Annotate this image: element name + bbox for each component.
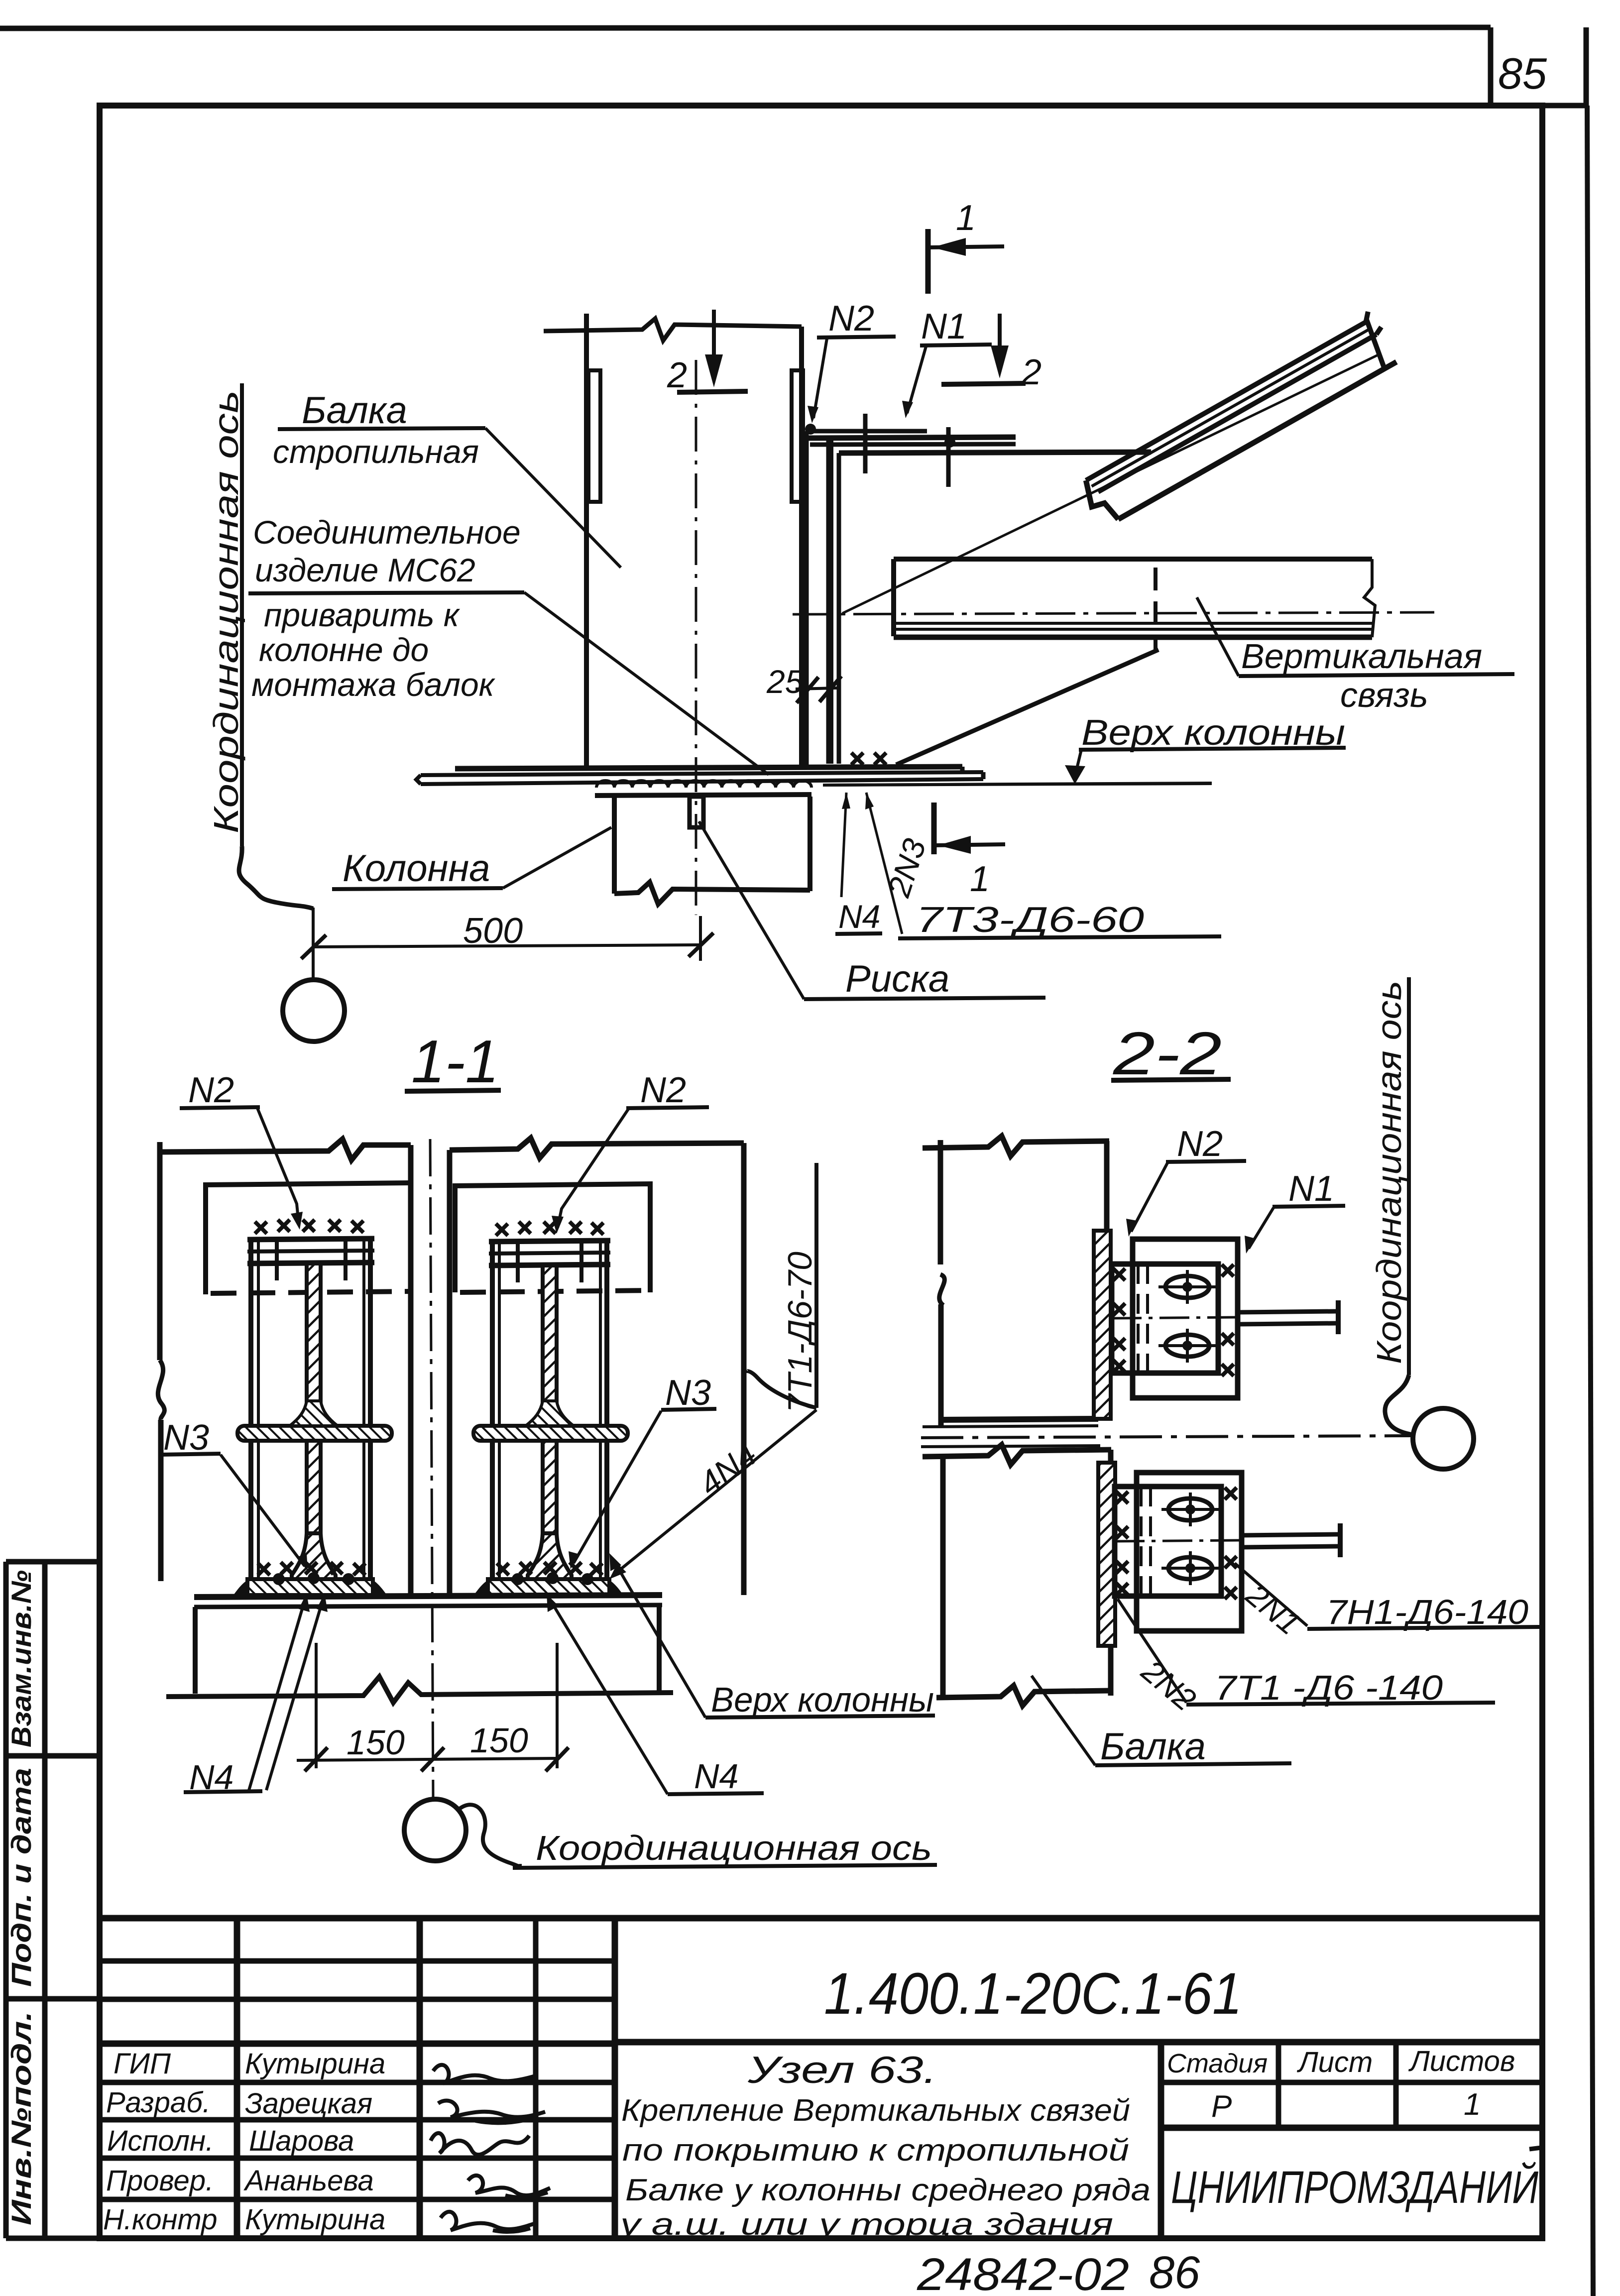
gusset hidden line + diagonal	[1154, 568, 1157, 650]
right plate assembly verticals	[489, 1241, 610, 1591]
lower beam outline	[923, 1445, 1111, 1706]
leaders from weld zone down	[841, 793, 846, 897]
svg-text:Зарецкая: Зарецкая	[245, 2087, 372, 2120]
svg-text:Координационная ось: Координационная ось	[536, 1829, 932, 1867]
svg-text:N1: N1	[921, 307, 967, 346]
svg-text:Ананьева: Ананьева	[243, 2165, 374, 2197]
section mark 1 (bottom)	[931, 803, 937, 854]
description	[618, 2049, 1151, 2242]
main axis dash-dot	[921, 1436, 1412, 1438]
section mark 1 (top)	[926, 229, 931, 294]
svg-text:Взам.инв.№: Взам.инв.№	[5, 1570, 37, 1747]
svg-text:N4: N4	[838, 898, 880, 935]
top of title block	[100, 1915, 1542, 1922]
description / stadia separator	[1158, 2042, 1164, 2238]
svg-text:у а.ш. или у торца здания: у а.ш. или у торца здания	[618, 2207, 1113, 2242]
upper rows	[100, 1958, 615, 1964]
svg-text:Н.контр: Н.контр	[103, 2203, 217, 2236]
svg-text:Балке у колонны среднего ряда: Балке у колонны среднего ряда	[625, 2173, 1151, 2207]
thin diagonal centerline of diagonal brace	[842, 353, 1381, 613]
svg-text:N2: N2	[1177, 1124, 1223, 1164]
svg-text:Кутырина: Кутырина	[245, 2203, 385, 2236]
svg-text:1.400.1-20С.1-61: 1.400.1-20С.1-61	[824, 1961, 1242, 2027]
axis line and circle	[312, 908, 315, 980]
svg-text:Крепление Вертикальных связей: Крепление Вертикальных связей	[621, 2093, 1130, 2128]
svg-text:Провер.: Провер.	[106, 2165, 214, 2197]
upper bolt fixture	[1112, 1239, 1238, 1398]
page number box 85 right edge	[1584, 27, 1589, 106]
bearing plate lines across	[194, 1595, 662, 1597]
svg-text:Соединительное: Соединительное	[253, 514, 521, 551]
svg-text:Лист: Лист	[1296, 2046, 1373, 2078]
right assembly outer	[450, 1138, 744, 1595]
left plate assembly verticals	[247, 1239, 374, 1591]
doc number underline	[615, 2039, 1542, 2046]
signatures	[431, 2065, 550, 2232]
svg-text:ЦНИИПРОМЗДАНИЙ: ЦНИИПРОМЗДАНИЙ	[1171, 2161, 1538, 2213]
lower rod	[1242, 1534, 1339, 1535]
svg-text:N1: N1	[1288, 1169, 1334, 1209]
label Вертикальная связь	[1241, 637, 1482, 714]
centreline between assemblies	[430, 1139, 433, 1798]
page number box 85 bottom edge	[1491, 103, 1586, 109]
svg-text:ГИП: ГИП	[114, 2048, 171, 2080]
svg-text:Исполн.: Исполн.	[107, 2125, 214, 2157]
top flange plates	[803, 431, 1151, 453]
svg-text:стропильная: стропильная	[273, 433, 479, 470]
svg-text:N2: N2	[828, 299, 874, 339]
svg-text:150: 150	[347, 1723, 405, 1762]
column centerline	[695, 360, 697, 915]
name row lines	[100, 2041, 615, 2047]
svg-text:7Т3-Д6-60: 7Т3-Д6-60	[916, 900, 1144, 940]
svg-text:1: 1	[970, 859, 990, 899]
bearing plates under column	[416, 767, 1212, 796]
column below bearing plate	[614, 797, 810, 904]
svg-text:Риска: Риска	[845, 958, 949, 1000]
svg-text:N2: N2	[640, 1070, 686, 1110]
column (rafter beam, vertical)	[544, 314, 803, 768]
svg-text:N4: N4	[694, 1757, 738, 1796]
svg-text:Балка: Балка	[1100, 1725, 1206, 1768]
svg-text:Шарова: Шарова	[249, 2125, 354, 2157]
svg-text:85: 85	[1498, 49, 1547, 98]
svg-text:приварить к: приварить к	[264, 596, 461, 633]
svg-text:7Т1-Д6-70: 7Т1-Д6-70	[781, 1252, 819, 1413]
svg-text:Верх колонны: Верх колонны	[711, 1680, 934, 1719]
svg-text:по покрытию к стропильной: по покрытию к стропильной	[622, 2133, 1129, 2168]
svg-text:150: 150	[470, 1721, 528, 1760]
svg-text:Кутырина: Кутырина	[245, 2048, 385, 2080]
svg-text:N2: N2	[188, 1070, 234, 1110]
page number box 85 left edge	[1488, 27, 1494, 106]
label: Балка / стропильная	[273, 389, 479, 470]
svg-text:1: 1	[956, 198, 976, 238]
svg-text:Балка: Балка	[302, 389, 407, 432]
upper rod	[1238, 1311, 1337, 1312]
svg-text:2: 2	[1021, 352, 1041, 392]
weld x-marks on plate right	[851, 753, 863, 765]
svg-text:изделие МС62: изделие МС62	[255, 552, 475, 588]
svg-text:Координационная ось: Координационная ось	[1370, 981, 1408, 1364]
support block	[166, 1605, 673, 1703]
stadia columns	[1276, 2042, 1281, 2128]
lower bolt fixture	[1115, 1473, 1242, 1631]
right assembly inner box	[455, 1184, 650, 1292]
upper beam outline	[923, 1136, 1109, 1427]
svg-text:1: 1	[1464, 2087, 1481, 2122]
riska tab below plate	[690, 797, 703, 827]
bottom weld zone (left)	[233, 1562, 387, 1595]
svg-text:Узел 63.: Узел 63.	[747, 2049, 937, 2091]
left assembly inner box	[206, 1183, 411, 1294]
weld blobs at N2/N1	[805, 424, 816, 435]
verticals of left table	[234, 1918, 240, 2238]
svg-text:Разраб.: Разраб.	[106, 2086, 211, 2119]
svg-text:N3: N3	[163, 1418, 209, 1458]
bolt ticks on flange	[863, 414, 868, 473]
svg-text:Вертикальная: Вертикальная	[1241, 637, 1482, 676]
title block texts	[103, 2048, 385, 2236]
diagonal brace (channel)	[1075, 310, 1400, 529]
weld x row top (left assembly)	[255, 1222, 267, 1234]
left assembly outer	[158, 1139, 411, 1596]
beam end plate and connection verticals	[806, 431, 839, 769]
circle axis	[404, 1799, 466, 1861]
svg-text:Подп. и дата: Подп. и дата	[5, 1768, 37, 1987]
svg-text:25: 25	[766, 663, 804, 700]
bottom weld zone (right)	[474, 1562, 623, 1595]
upper hatched plate	[1094, 1231, 1111, 1419]
svg-text:колонне до: колонне до	[259, 631, 429, 668]
scalloped weld under plate	[596, 781, 811, 788]
outer right border	[1587, 106, 1593, 2296]
svg-text:2: 2	[667, 355, 687, 395]
top rule	[0, 27, 1491, 28]
T-gusset horizontal (right)	[473, 1401, 628, 1441]
svg-text:1-1: 1-1	[411, 1028, 499, 1095]
label Координационная ось (horizontal)	[459, 1805, 522, 1866]
svg-text:24842-02: 24842-02	[917, 2249, 1129, 2296]
7Т1-Д6-70 bracket	[814, 1163, 818, 1408]
svg-text:Листов: Листов	[1408, 2045, 1515, 2077]
svg-text:Координационная ось: Координационная ось	[207, 390, 245, 833]
label: Соединительное изделие МС62 ...	[251, 514, 521, 703]
stadia	[1167, 2045, 1515, 2124]
svg-text:Колонна: Колонна	[343, 847, 490, 890]
svg-text:N3: N3	[665, 1373, 711, 1413]
lower hatched plate	[1098, 1463, 1115, 1646]
member axis dash-dot	[793, 612, 1434, 614]
svg-text:86: 86	[1149, 2247, 1200, 2296]
central hatched bar (left)	[307, 1263, 321, 1533]
horizontal brace member	[894, 559, 1375, 637]
svg-text:Стадия: Стадия	[1167, 2049, 1268, 2078]
central hatched bar (right)	[543, 1265, 557, 1533]
svg-text:Инв.№подл.: Инв.№подл.	[5, 2011, 37, 2225]
svg-text:Р: Р	[1211, 2089, 1232, 2124]
svg-text:связь: связь	[1340, 676, 1428, 714]
svg-text:монтажа балок: монтажа балок	[251, 666, 496, 703]
T-gusset horizontal (left)	[237, 1401, 392, 1441]
